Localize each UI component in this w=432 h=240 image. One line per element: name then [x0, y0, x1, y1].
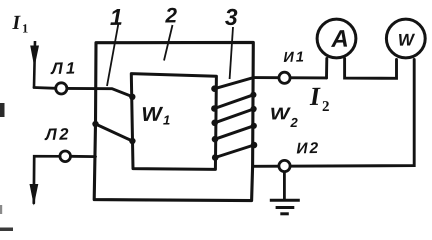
scan artifact left edge mid	[0, 205, 2, 214]
label I1 (primary current)	[12, 16, 21, 29]
label W1 (primary turns)	[143, 107, 164, 121]
wire arrow corner to terminal L1	[34, 86, 56, 90]
wattmeter W letter	[399, 34, 415, 46]
ground lead	[283, 172, 286, 200]
primary output arrowhead	[30, 184, 39, 206]
ground bar 3	[280, 212, 289, 215]
secondary winding W2 rung 1 + I1 wire	[215, 78, 327, 89]
terminal I2	[279, 160, 290, 171]
scan artifact left edge lower	[0, 228, 13, 232]
label I2 (secondary current)	[309, 88, 320, 105]
junction dot primary outer	[92, 121, 98, 127]
label I2 subscript	[323, 101, 329, 111]
leader line 1	[107, 23, 119, 86]
label W2 (secondary turns)	[271, 108, 291, 120]
transformer T core inner edge (window)	[131, 74, 216, 170]
ground bar 2	[276, 206, 295, 209]
callout number 3	[225, 9, 238, 25]
secondary winding W2 rung 3	[215, 109, 254, 123]
transformer T core outer edge (case)	[94, 42, 253, 200]
wire L2 to output arrow	[34, 156, 60, 203]
callout number 2	[165, 8, 177, 23]
wattmeter W body	[386, 19, 425, 58]
wire wattmeter right lead down to I2 rail	[254, 60, 414, 167]
ammeter A body	[317, 19, 356, 58]
label W2 subscript	[290, 118, 297, 127]
leader line 3	[230, 27, 233, 79]
leader line 2	[164, 25, 173, 61]
ground bar 1	[270, 199, 300, 202]
wire ammeter right lead to wattmeter left lead	[345, 59, 397, 79]
wire ammeter left lead	[325, 59, 328, 78]
primary input arrowhead	[30, 46, 39, 68]
wire L1 to primary winding	[67, 88, 132, 96]
ammeter A letter	[331, 30, 347, 47]
terminal L1	[56, 83, 67, 94]
junction dot	[211, 85, 218, 92]
primary input arrow shaft	[34, 41, 35, 88]
secondary winding W2 rung 2	[214, 95, 253, 109]
wire L2 terminal to core	[71, 155, 96, 158]
label terminal I1	[283, 52, 303, 62]
scan artifact left edge upper	[0, 103, 5, 117]
label terminal I2	[296, 142, 318, 153]
terminal I1	[279, 72, 290, 83]
label I1 subscript	[23, 24, 28, 32]
label L2	[44, 128, 68, 140]
label W1 subscript	[163, 116, 169, 125]
terminal L2	[60, 151, 71, 162]
secondary winding W2 rung 4	[215, 126, 254, 139]
secondary winding W2 rung 5	[215, 145, 254, 158]
primary winding W1 turn	[96, 124, 133, 141]
callout number 1	[110, 9, 121, 25]
junction dot primary top	[129, 94, 135, 100]
junction dot primary lower	[129, 138, 135, 144]
label L1	[50, 62, 74, 74]
